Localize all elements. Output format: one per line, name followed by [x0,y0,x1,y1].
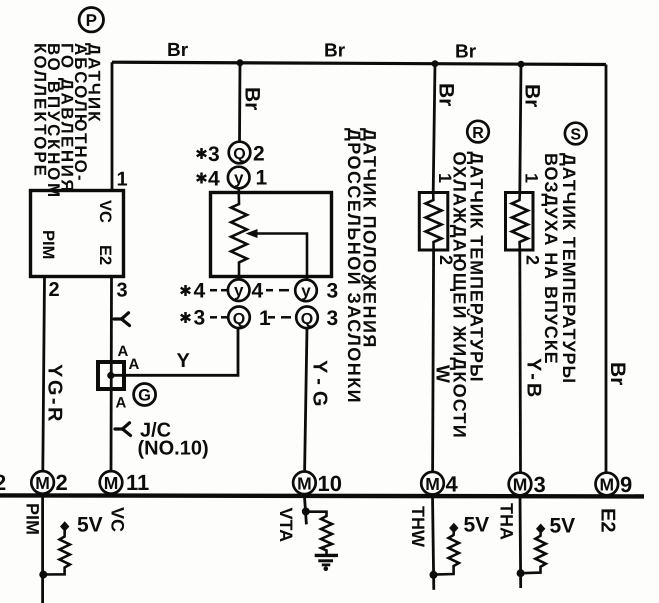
svg-text:11: 11 [126,470,149,495]
svg-text:Br: Br [521,84,544,107]
svg-text:Y-G: Y-G [309,360,331,412]
svg-text:5V: 5V [77,514,103,537]
svg-text:3: 3 [208,143,220,166]
5V pullup for PIM [60,521,69,531]
svg-text:Q: Q [233,311,245,328]
svg-text:Br: Br [324,41,346,62]
wire MAP pin2 to M2 [43,277,45,471]
TPS bottom pins row Q [181,312,191,323]
svg-text:M: M [600,475,615,495]
wire MAP pin3 / VC down to M11 [110,277,113,471]
connector M3 [509,473,532,496]
svg-text:Q: Q [233,146,245,163]
svg-text:E2: E2 [96,245,114,265]
svg-text:VC: VC [108,507,128,532]
svg-text:2: 2 [436,255,456,265]
svg-text:КОЛЛЕКТОРЕ: КОЛЛЕКТОРЕ [31,43,50,178]
svg-text:3: 3 [534,472,546,497]
svg-text:A: A [118,343,129,360]
svg-text:9: 9 [620,472,632,497]
svg-text:Br: Br [455,42,477,63]
svg-text:2: 2 [56,470,68,495]
node junction dot coolant branch [432,60,439,67]
node junction dot THW pullup [430,571,438,579]
svg-text:y: y [234,281,244,300]
TPS pin y1: star4, circle y, 1 [197,173,207,184]
svg-text:1: 1 [117,169,128,191]
wire Y from J/C to TPS Q1 [111,329,238,375]
svg-text:(NO.10): (NO.10) [138,438,209,460]
wiper arrow TPS [256,234,307,282]
svg-text:THW: THW [408,506,428,547]
svg-text:5V: 5V [464,514,490,537]
label MAP sensor name (rotated) [31,43,104,200]
node junction dot PIM pullup [39,571,47,579]
svg-text:A: A [129,356,140,373]
connector M2 [31,471,54,494]
svg-text:Br: Br [606,362,629,385]
svg-text:4: 4 [446,472,459,497]
svg-text:4: 4 [252,280,264,303]
svg-text:M: M [425,474,440,494]
svg-text:S: S [570,127,581,144]
svg-text:y: y [301,281,311,300]
5V pullup for THA [536,524,545,534]
connector S circle [565,123,587,145]
wire air sensor to M3 [518,250,522,473]
label air temp sensor name rotated [541,153,579,384]
wire THA below M3 [519,495,523,588]
node junction dot VTA [302,508,310,516]
svg-text:Q: Q [301,311,313,328]
wire right drop to M9 [605,65,608,474]
svg-text:2: 2 [0,470,6,495]
resistor TPS potentiometer [231,188,247,281]
svg-text:M: M [35,473,50,493]
svg-text:ВОЗДУХА НА ВПУСКЕ: ВОЗДУХА НА ВПУСКЕ [541,153,561,365]
wire Q3 down to M10 [305,328,307,471]
node junction dot TPS branch [237,59,244,66]
wire coolant branch vertical [433,64,435,193]
node junction dot air branch [518,61,525,68]
symbol sideways Y above J/C [114,313,130,326]
wire top horizontal bus Br [112,62,606,64]
svg-text:M: M [297,473,312,493]
junction connector J/C box [98,362,124,389]
svg-text:YG-R: YG-R [44,364,66,424]
svg-text:ДАТЧИК ТЕМПЕРАТУРЫ: ДАТЧИК ТЕМПЕРАТУРЫ [559,153,579,384]
svg-text:M: M [513,475,528,495]
label coolant temp sensor name rotated [450,152,487,439]
label TPS name rotated [344,128,380,404]
svg-text:W: W [432,365,453,383]
wire THW below M4 [433,495,434,590]
svg-text:VTA: VTA [276,508,296,543]
svg-text:3: 3 [327,307,339,330]
MAP sensor box [31,191,124,277]
svg-text:4: 4 [208,168,220,191]
svg-text:3: 3 [327,280,339,303]
node junction dot THA pullup [517,569,525,577]
svg-text:y: y [234,169,244,188]
symbol sideways Y below J/C [115,423,131,436]
svg-text:1: 1 [522,173,542,183]
svg-text:1: 1 [435,173,455,183]
resistor air temp sensor box [506,193,534,251]
ground [315,554,338,557]
resistor to ground VTA [306,512,332,554]
TPS box [211,193,332,277]
5V pullup for THW [449,523,458,533]
svg-text:2: 2 [49,279,60,301]
wire coolant to M4 [433,250,434,471]
svg-text:R: R [472,125,484,142]
svg-text:THA: THA [497,503,517,540]
svg-text:A: A [116,395,127,412]
connector M4 [421,472,444,495]
svg-text:ДРОССЕЛЬНОЙ ЗАСЛОНКИ: ДРОССЕЛЬНОЙ ЗАСЛОНКИ [344,128,365,404]
connector M9 [596,473,619,496]
svg-text:Br: Br [435,83,458,106]
svg-text:10: 10 [318,471,342,496]
svg-text:M: M [104,473,119,493]
TPS bottom pins row y [181,285,191,296]
svg-text:1: 1 [256,167,268,190]
TPS pin Q2: star3, circle Q, 2 [197,148,207,159]
svg-text:ОХЛАЖДАЮЩЕЙ ЖИДКОСТИ: ОХЛАЖДАЮЩЕЙ ЖИДКОСТИ [450,152,471,439]
svg-text:5V: 5V [550,515,576,538]
svg-text:G: G [138,387,151,405]
node J/C center dot [107,372,114,379]
resistor coolant sensor box [419,193,448,251]
svg-text:VC: VC [96,200,114,223]
bottom ECU bus line [0,495,644,496]
svg-text:PIM: PIM [39,230,57,259]
connector R circle [467,121,489,143]
wire left drop to MAP sensor pin 1 [111,62,114,191]
svg-text:Br: Br [167,40,189,61]
svg-text:2: 2 [523,255,543,265]
connector P circle [79,8,103,32]
svg-text:2: 2 [253,143,265,166]
svg-text:Br: Br [241,87,264,110]
wire air branch vertical [520,64,521,193]
svg-text:P: P [86,11,97,30]
svg-text:E2: E2 [597,508,619,532]
svg-text:4: 4 [194,280,206,303]
connector G circle [134,384,156,406]
wire TPS branch vertical [238,63,241,143]
svg-text:3: 3 [194,307,206,330]
connector M10 [293,472,316,495]
connector M11 [100,471,123,494]
svg-text:3: 3 [117,280,128,302]
svg-text:PIM: PIM [23,503,43,535]
svg-text:Y: Y [177,350,191,372]
wire VTA below M10 [304,495,306,524]
wire PIM below bus [41,495,44,603]
svg-text:Y-B: Y-B [523,358,545,400]
